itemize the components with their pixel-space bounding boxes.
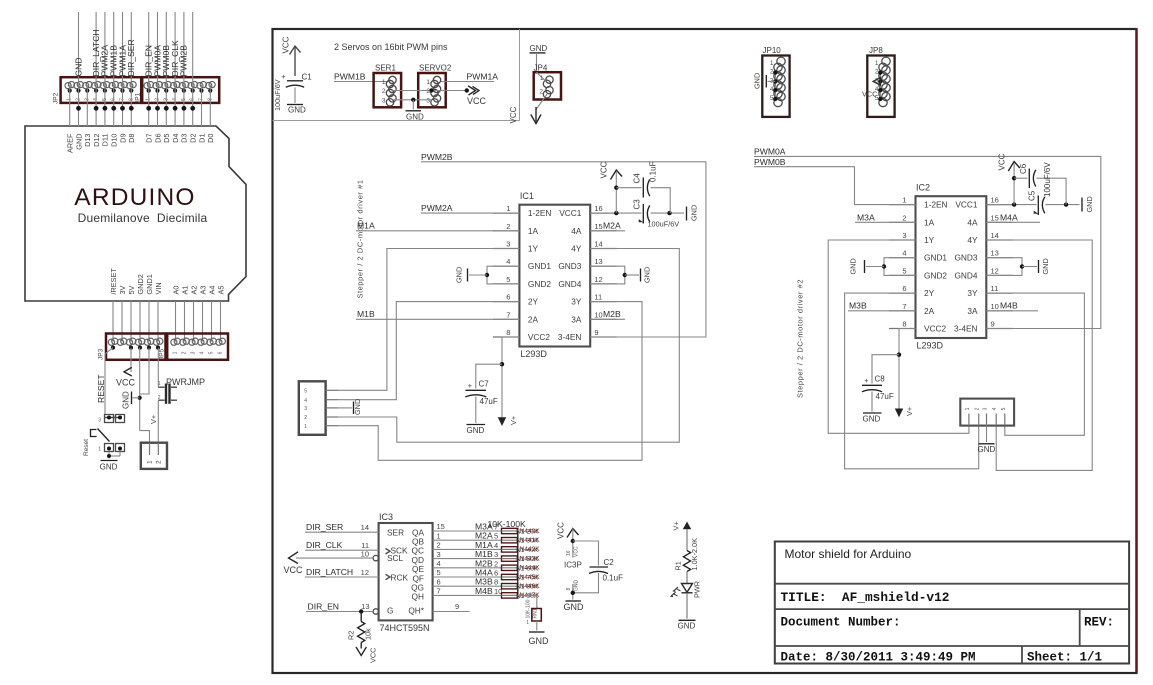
IC IC3 74HCT595N body xyxy=(379,523,433,620)
svg-text:1: 1 xyxy=(382,79,386,86)
svg-text:100uF/6V: 100uF/6V xyxy=(1043,162,1052,197)
svg-text:Stepper / 2 DC-motor driver #2: Stepper / 2 DC-motor driver #2 xyxy=(796,279,805,398)
title block row dividers xyxy=(775,583,1129,585)
svg-text:7: 7 xyxy=(902,302,906,311)
svg-text:JP8: JP8 xyxy=(869,46,883,55)
svg-text:VCC: VCC xyxy=(862,90,877,99)
svg-text:3: 3 xyxy=(494,550,498,559)
wire PWRJMP pin2 to terminal (V+) xyxy=(157,400,159,443)
V+ arrow below IC1 xyxy=(498,417,506,426)
svg-text:6: 6 xyxy=(437,577,441,586)
wire IC1 VCC1 pin16 rail xyxy=(590,212,641,214)
svg-text:M4B: M4B xyxy=(1000,300,1018,310)
svg-text:D1: D1 xyxy=(197,134,206,143)
wire RESET from JP3 pin1 xyxy=(105,348,113,414)
motor connector M1 xyxy=(299,381,326,435)
svg-text:D5: D5 xyxy=(162,134,171,143)
svg-text:1.0K-2.0K: 1.0K-2.0K xyxy=(690,538,699,571)
svg-text:SER1: SER1 xyxy=(375,64,396,73)
svg-text:Date: 8/30/2011 3:49:49 PM: Date: 8/30/2011 3:49:49 PM xyxy=(781,651,976,665)
capacitor C7 branch xyxy=(476,364,502,388)
wire JP4 pin2 to VCC arrow down xyxy=(536,94,547,109)
svg-text:10k: 10k xyxy=(364,628,373,640)
svg-text:GND: GND xyxy=(74,134,83,150)
switch lever xyxy=(98,429,110,442)
motor conn pin3 ground xyxy=(986,426,988,442)
svg-text:L293D: L293D xyxy=(917,341,944,351)
IC1 left ground (GND1/GND2) xyxy=(487,266,519,284)
svg-text:2: 2 xyxy=(382,88,386,95)
wire GND2 down xyxy=(139,348,141,431)
wire DIR_CLK to SCK pin11 xyxy=(305,549,379,551)
svg-text:2Y: 2Y xyxy=(924,288,935,298)
svg-text:VCC2: VCC2 xyxy=(924,324,947,334)
svg-text:14: 14 xyxy=(991,231,999,240)
IC3 clock marks xyxy=(386,549,391,554)
motor connector M3/M4 xyxy=(960,399,1014,426)
svg-text:GND: GND xyxy=(849,258,858,274)
svg-text:2A: 2A xyxy=(924,306,935,316)
svg-text:3A: 3A xyxy=(967,306,978,316)
svg-text:16: 16 xyxy=(566,550,572,556)
svg-text:GND: GND xyxy=(122,391,131,409)
svg-text:12: 12 xyxy=(361,568,369,577)
svg-text:QH: QH xyxy=(412,592,424,602)
frame right edge (dark red) xyxy=(1135,29,1137,673)
svg-text:N445K: N445K xyxy=(520,574,541,581)
svg-text:1: 1 xyxy=(965,407,971,410)
svg-text:VCC: VCC xyxy=(574,546,580,557)
svg-text:RCK: RCK xyxy=(391,572,409,582)
svg-text:Document Number:: Document Number: xyxy=(781,616,901,630)
svg-text:7: 7 xyxy=(494,523,498,532)
IC2 right ground (GND3/GND4) xyxy=(986,258,1022,276)
svg-text:DIR_CLK: DIR_CLK xyxy=(306,540,343,550)
svg-text:GND: GND xyxy=(530,44,548,53)
wire QH* pin9 xyxy=(433,611,470,613)
svg-text:1-2EN: 1-2EN xyxy=(528,208,552,218)
svg-text:0.1uF: 0.1uF xyxy=(603,574,624,583)
svg-text:G: G xyxy=(387,606,393,616)
ground below C7 xyxy=(467,424,486,426)
wire switch to GND xyxy=(108,452,110,459)
svg-text:1A: 1A xyxy=(528,226,539,236)
svg-text:VIN: VIN xyxy=(154,282,163,294)
svg-text:1: 1 xyxy=(173,351,179,354)
capacitor C8 branch xyxy=(872,355,899,384)
schematic frame border xyxy=(273,29,1137,673)
svg-text:100uF/6V: 100uF/6V xyxy=(648,220,680,229)
svg-text:D7: D7 xyxy=(145,134,154,143)
wire IC2 2Y to motor conn pin2 xyxy=(845,293,979,469)
svg-text:VCC: VCC xyxy=(116,378,136,388)
svg-text:JP10: JP10 xyxy=(763,46,782,55)
svg-text:A3: A3 xyxy=(198,286,207,295)
svg-text:N444K: N444K xyxy=(520,565,541,572)
wire IC1 2Y to M1 pin4 xyxy=(338,302,519,400)
svg-text:C2: C2 xyxy=(604,558,615,567)
svg-text:D4: D4 xyxy=(171,134,180,143)
wire IC2 VCC1 pin16 rail xyxy=(986,204,1036,206)
capacitor C8 xyxy=(862,384,882,386)
svg-text:GND: GND xyxy=(574,580,580,592)
capacitor C2 xyxy=(590,566,609,568)
wire VIN down to PWRJMP pin1 xyxy=(157,348,159,388)
svg-text:DIR_EN: DIR_EN xyxy=(308,602,340,612)
svg-text:GND: GND xyxy=(564,602,585,612)
capacitor C6 xyxy=(1014,177,1027,179)
svg-text:A1: A1 xyxy=(180,286,189,295)
wire IC2 VCC2 down xyxy=(899,329,916,411)
svg-text:RN1_: RN1_ xyxy=(533,605,539,618)
title block sheet divider xyxy=(1021,646,1023,664)
svg-text:VCC1: VCC1 xyxy=(955,200,978,210)
svg-text:C5: C5 xyxy=(1028,190,1037,201)
wire GND1 join xyxy=(140,348,149,394)
svg-text:GND: GND xyxy=(753,73,762,89)
svg-text:GND: GND xyxy=(353,399,362,415)
svg-text:M2B: M2B xyxy=(603,309,621,319)
JP3 pins xyxy=(112,338,118,344)
svg-text:3: 3 xyxy=(191,351,197,354)
JP3 header left box xyxy=(106,334,166,360)
JP1 header right box xyxy=(142,77,219,103)
svg-text:1Y: 1Y xyxy=(924,235,935,245)
svg-text:2: 2 xyxy=(182,351,188,354)
svg-text:A5: A5 xyxy=(216,286,225,295)
svg-text:14: 14 xyxy=(361,523,369,532)
wire SERVO2 pin1 to PWM1A xyxy=(441,81,494,83)
svg-text:D13: D13 xyxy=(83,134,92,147)
svg-text:IC3P: IC3P xyxy=(564,561,582,570)
svg-text:AREF: AREF xyxy=(66,133,75,153)
wires JP2 pins to Arduino top edge xyxy=(69,85,71,126)
svg-text:R2: R2 xyxy=(347,631,356,640)
svg-text:5: 5 xyxy=(1001,407,1007,410)
svg-text:2 Servos on 16bit PWM pins: 2 Servos on 16bit PWM pins xyxy=(334,42,448,52)
svg-text:1: 1 xyxy=(540,75,544,82)
svg-text:10: 10 xyxy=(361,549,369,558)
wire DIR_LATCH to RCK pin12 xyxy=(305,576,379,578)
svg-text:D8: D8 xyxy=(127,134,136,143)
svg-text:8: 8 xyxy=(566,588,572,591)
svg-text:9: 9 xyxy=(455,602,459,611)
svg-text:GND: GND xyxy=(1085,196,1094,212)
svg-text:5: 5 xyxy=(209,351,215,354)
svg-text:Reset: Reset xyxy=(83,439,90,456)
wire PWM2A to IC1 pin1 xyxy=(421,212,519,214)
ground below IC3P xyxy=(566,600,582,602)
svg-text:3Y: 3Y xyxy=(571,297,582,307)
svg-text:15: 15 xyxy=(594,222,602,231)
svg-text:GND: GND xyxy=(73,57,83,76)
svg-text:PWM2B: PWM2B xyxy=(421,152,453,162)
VCC arrow right xyxy=(468,86,476,95)
svg-text:4: 4 xyxy=(437,559,441,568)
svg-text:M4A: M4A xyxy=(1000,212,1018,222)
svg-text:1-2EN: 1-2EN xyxy=(924,200,948,210)
svg-text:GND4: GND4 xyxy=(954,270,977,280)
svg-text:C7: C7 xyxy=(479,380,490,389)
JP8 jumper bus wire xyxy=(879,73,881,99)
svg-text:IC1: IC1 xyxy=(520,191,534,201)
LED PWR xyxy=(682,584,693,593)
svg-text:3: 3 xyxy=(437,550,441,559)
svg-text:12: 12 xyxy=(991,266,999,275)
svg-text:GND3: GND3 xyxy=(558,261,581,271)
wire GND to terminal xyxy=(140,431,150,443)
svg-text:V+: V+ xyxy=(905,407,914,416)
wire M1B to IC1 pin7 xyxy=(356,318,519,320)
svg-text:N446K: N446K xyxy=(520,583,541,590)
wire PWM0A to IC2 pin9 xyxy=(754,156,1101,328)
svg-text:2: 2 xyxy=(158,395,161,401)
svg-text:13: 13 xyxy=(991,249,999,258)
svg-text:SER: SER xyxy=(387,527,404,537)
svg-text:1Y: 1Y xyxy=(528,244,539,254)
svg-text:GND: GND xyxy=(690,205,699,221)
svg-text:1: 1 xyxy=(875,60,879,67)
svg-text:74HCT595N: 74HCT595N xyxy=(380,623,430,633)
svg-text:PWR: PWR xyxy=(693,581,702,598)
svg-text:5: 5 xyxy=(494,532,498,541)
svg-text:9: 9 xyxy=(991,320,995,329)
JP2 header left box xyxy=(61,77,142,103)
wire C2 to pin8 xyxy=(573,573,599,593)
resistor R2 10k pull-up xyxy=(360,612,362,622)
svg-text:5: 5 xyxy=(437,568,441,577)
wire IC2 3Y to motor conn pin5 xyxy=(986,293,1084,435)
svg-text:GND: GND xyxy=(406,113,424,122)
svg-text:9: 9 xyxy=(594,328,598,337)
capacitor C2 branch xyxy=(573,541,599,566)
svg-text:8: 8 xyxy=(494,578,498,587)
ground at JP10 xyxy=(768,80,776,82)
svg-text:15: 15 xyxy=(991,213,999,222)
svg-text:VCC1: VCC1 xyxy=(559,208,582,218)
svg-text:6: 6 xyxy=(494,569,498,578)
svg-text:2: 2 xyxy=(975,407,981,410)
svg-text:M3B: M3B xyxy=(849,300,867,310)
svg-text:PWM1B: PWM1B xyxy=(334,71,366,81)
wire 5V to VCC xyxy=(130,348,132,372)
svg-text:+: + xyxy=(864,376,868,385)
wires Arduino bottom edge to JP3 xyxy=(112,301,114,342)
svg-text:3-4EN: 3-4EN xyxy=(954,324,978,334)
RN1 common bus xyxy=(517,531,519,595)
svg-text:QH*: QH* xyxy=(408,606,424,616)
svg-text:GND3: GND3 xyxy=(954,253,977,263)
svg-text:5: 5 xyxy=(506,275,510,284)
IC3 inversion bubbles xyxy=(373,555,378,560)
wire PWM0B to IC2 pin1 xyxy=(754,167,916,205)
svg-text:4A: 4A xyxy=(571,226,582,236)
svg-text:PWM2A: PWM2A xyxy=(421,203,453,213)
svg-text:3-4EN: 3-4EN xyxy=(558,332,582,342)
svg-text:VCC: VCC xyxy=(600,161,609,178)
svg-text:3V: 3V xyxy=(118,285,127,294)
svg-text:4: 4 xyxy=(992,407,998,410)
title block REV divider xyxy=(1079,609,1081,646)
ground bar below C1 xyxy=(287,104,303,106)
svg-text:L293D: L293D xyxy=(520,349,547,359)
op-amp/IC IC1 L293D body xyxy=(519,205,590,347)
svg-text:M3A: M3A xyxy=(857,212,875,222)
svg-text:VCC: VCC xyxy=(509,106,518,123)
svg-text:4Y: 4Y xyxy=(967,235,978,245)
svg-text:N440K: N440K xyxy=(520,528,541,535)
svg-text:47uF: 47uF xyxy=(480,397,498,406)
svg-text:10K-100: 10K-100 xyxy=(526,599,532,618)
svg-text:GND: GND xyxy=(863,415,881,424)
RN1 common to pin9 part xyxy=(518,595,537,608)
svg-text:5: 5 xyxy=(902,266,906,275)
svg-text:M1B: M1B xyxy=(357,309,375,319)
svg-text:GND4: GND4 xyxy=(558,279,581,289)
svg-text:PWM2B: PWM2B xyxy=(179,45,189,77)
svg-text:4: 4 xyxy=(902,249,906,258)
resistor network RN1 resistors xyxy=(502,528,518,533)
JP4 header right box (analog) xyxy=(167,334,228,360)
svg-text:Sheet: 1/1: Sheet: 1/1 xyxy=(1027,651,1102,665)
svg-text:DIR_SER: DIR_SER xyxy=(126,39,136,76)
power terminal block X1 xyxy=(141,443,167,469)
svg-text:13: 13 xyxy=(361,602,369,611)
svg-text:7: 7 xyxy=(506,310,510,319)
svg-text:0.1uF: 0.1uF xyxy=(649,161,658,182)
svg-text:3: 3 xyxy=(426,97,430,104)
capacitor C5 xyxy=(1037,196,1039,216)
VCC arrow at IC3P xyxy=(567,529,579,538)
svg-text:GND2: GND2 xyxy=(528,279,551,289)
svg-text:1: 1 xyxy=(426,79,430,86)
svg-text:5V: 5V xyxy=(127,285,136,294)
svg-text:4: 4 xyxy=(494,541,498,550)
svg-text:GND: GND xyxy=(1041,258,1050,274)
svg-text:VCC: VCC xyxy=(467,96,487,106)
wire PWM2B to IC1 pin9 xyxy=(421,162,706,337)
reset switch S1 xyxy=(105,415,114,423)
capacitor C3 (100uF/6V) xyxy=(642,204,644,224)
svg-text:D10: D10 xyxy=(110,134,119,147)
svg-text:V+: V+ xyxy=(672,521,681,530)
ground below servo xyxy=(412,100,414,110)
svg-text:GND1: GND1 xyxy=(528,261,551,271)
wire M1 pin1 to IC1 3Y xyxy=(338,302,642,461)
wire C7 to GND xyxy=(475,397,477,424)
svg-text:GND: GND xyxy=(288,106,306,115)
title block outer box xyxy=(775,542,1129,664)
wires IC3 outputs to resistor network RN1 xyxy=(433,530,502,532)
svg-text:GND2: GND2 xyxy=(136,274,145,294)
svg-text:11: 11 xyxy=(594,293,602,302)
svg-text:2: 2 xyxy=(902,213,906,222)
svg-text:8: 8 xyxy=(506,328,510,337)
svg-text:D0: D0 xyxy=(206,134,215,143)
VCC arrow above IC1 xyxy=(615,172,617,213)
wire M3A to IC2 pin2 xyxy=(855,221,916,223)
wire LED to GND xyxy=(686,593,688,619)
svg-text:100uF/6V: 100uF/6V xyxy=(273,79,282,111)
svg-text:GND: GND xyxy=(529,636,550,646)
svg-text:GND: GND xyxy=(467,426,485,435)
svg-text:1A: 1A xyxy=(924,217,935,227)
svg-text:C4: C4 xyxy=(633,173,642,184)
wire GND to JP4 xyxy=(536,53,538,72)
svg-text:C8: C8 xyxy=(875,375,886,384)
svg-text:4: 4 xyxy=(200,351,206,354)
svg-text:5: 5 xyxy=(304,389,307,395)
svg-text:JP2: JP2 xyxy=(53,92,60,104)
svg-text:D11: D11 xyxy=(101,134,110,147)
svg-text:R1: R1 xyxy=(674,561,683,570)
svg-text:4Y: 4Y xyxy=(571,244,582,254)
svg-text:Stepper / 2 DC-motor driver #1: Stepper / 2 DC-motor driver #1 xyxy=(356,179,365,298)
servo connector SERVO2 xyxy=(418,73,446,107)
VCC arrow (pointing left) xyxy=(124,367,132,376)
top net stub wires with junction dots xyxy=(78,12,80,85)
svg-text:GND2: GND2 xyxy=(924,270,947,280)
svg-text:+: + xyxy=(468,381,472,390)
svg-text:IC3: IC3 xyxy=(379,512,393,522)
svg-text:2: 2 xyxy=(304,415,307,421)
svg-text:16: 16 xyxy=(991,196,999,205)
svg-text:ARDUINO: ARDUINO xyxy=(74,184,195,211)
svg-text:M2A: M2A xyxy=(603,221,621,231)
svg-text:3: 3 xyxy=(983,407,989,410)
JP2/JP1 header pins xyxy=(68,82,74,88)
capacitor C1 xyxy=(287,80,303,82)
svg-text:2A: 2A xyxy=(528,314,539,324)
svg-text:JP5: JP5 xyxy=(159,348,166,360)
svg-text:4: 4 xyxy=(304,398,307,404)
svg-text:10: 10 xyxy=(594,310,602,319)
ground symbol stub xyxy=(133,397,140,399)
RN1 common pin symbol xyxy=(532,609,542,622)
svg-text:1: 1 xyxy=(304,424,307,430)
op-amp/IC IC2 L293D body xyxy=(916,196,987,338)
svg-text:TITLE: AF_mshield-v12: TITLE: AF_mshield-v12 xyxy=(781,590,950,605)
svg-text:GND: GND xyxy=(455,267,464,283)
svg-text:2Y: 2Y xyxy=(528,297,539,307)
svg-text:VCC: VCC xyxy=(284,565,304,575)
wire IC2 1Y to motor conn pin1 xyxy=(828,240,969,433)
wire M3B to IC2 pin7 xyxy=(848,310,916,312)
svg-text:4: 4 xyxy=(506,257,510,266)
wire M1 pin2 to IC1 4Y xyxy=(338,249,679,443)
svg-text:1: 1 xyxy=(902,196,906,205)
svg-text:16: 16 xyxy=(594,204,602,213)
IC3P pin8 stub xyxy=(572,584,574,600)
svg-text:D3: D3 xyxy=(180,134,189,143)
svg-text:PWM0B: PWM0B xyxy=(754,157,786,167)
svg-text:VCC: VCC xyxy=(369,648,378,663)
svg-text:GND: GND xyxy=(978,445,996,454)
svg-text:2: 2 xyxy=(494,559,498,568)
svg-text:VCC: VCC xyxy=(557,522,566,539)
wire R1 to LED xyxy=(686,572,688,584)
wire IC2 4Y to motor conn pin4 xyxy=(986,240,1092,470)
svg-text:A2: A2 xyxy=(189,286,198,295)
ground right of C5 xyxy=(1081,198,1083,212)
svg-text:N441K: N441K xyxy=(520,537,541,544)
wire V+ to R1 xyxy=(686,529,688,550)
V+ arrow above R1 xyxy=(683,522,691,530)
svg-text:3Y: 3Y xyxy=(967,288,978,298)
svg-text:A0: A0 xyxy=(171,286,180,295)
svg-text:D12: D12 xyxy=(92,134,101,147)
M1 pin3 ground xyxy=(338,407,352,409)
